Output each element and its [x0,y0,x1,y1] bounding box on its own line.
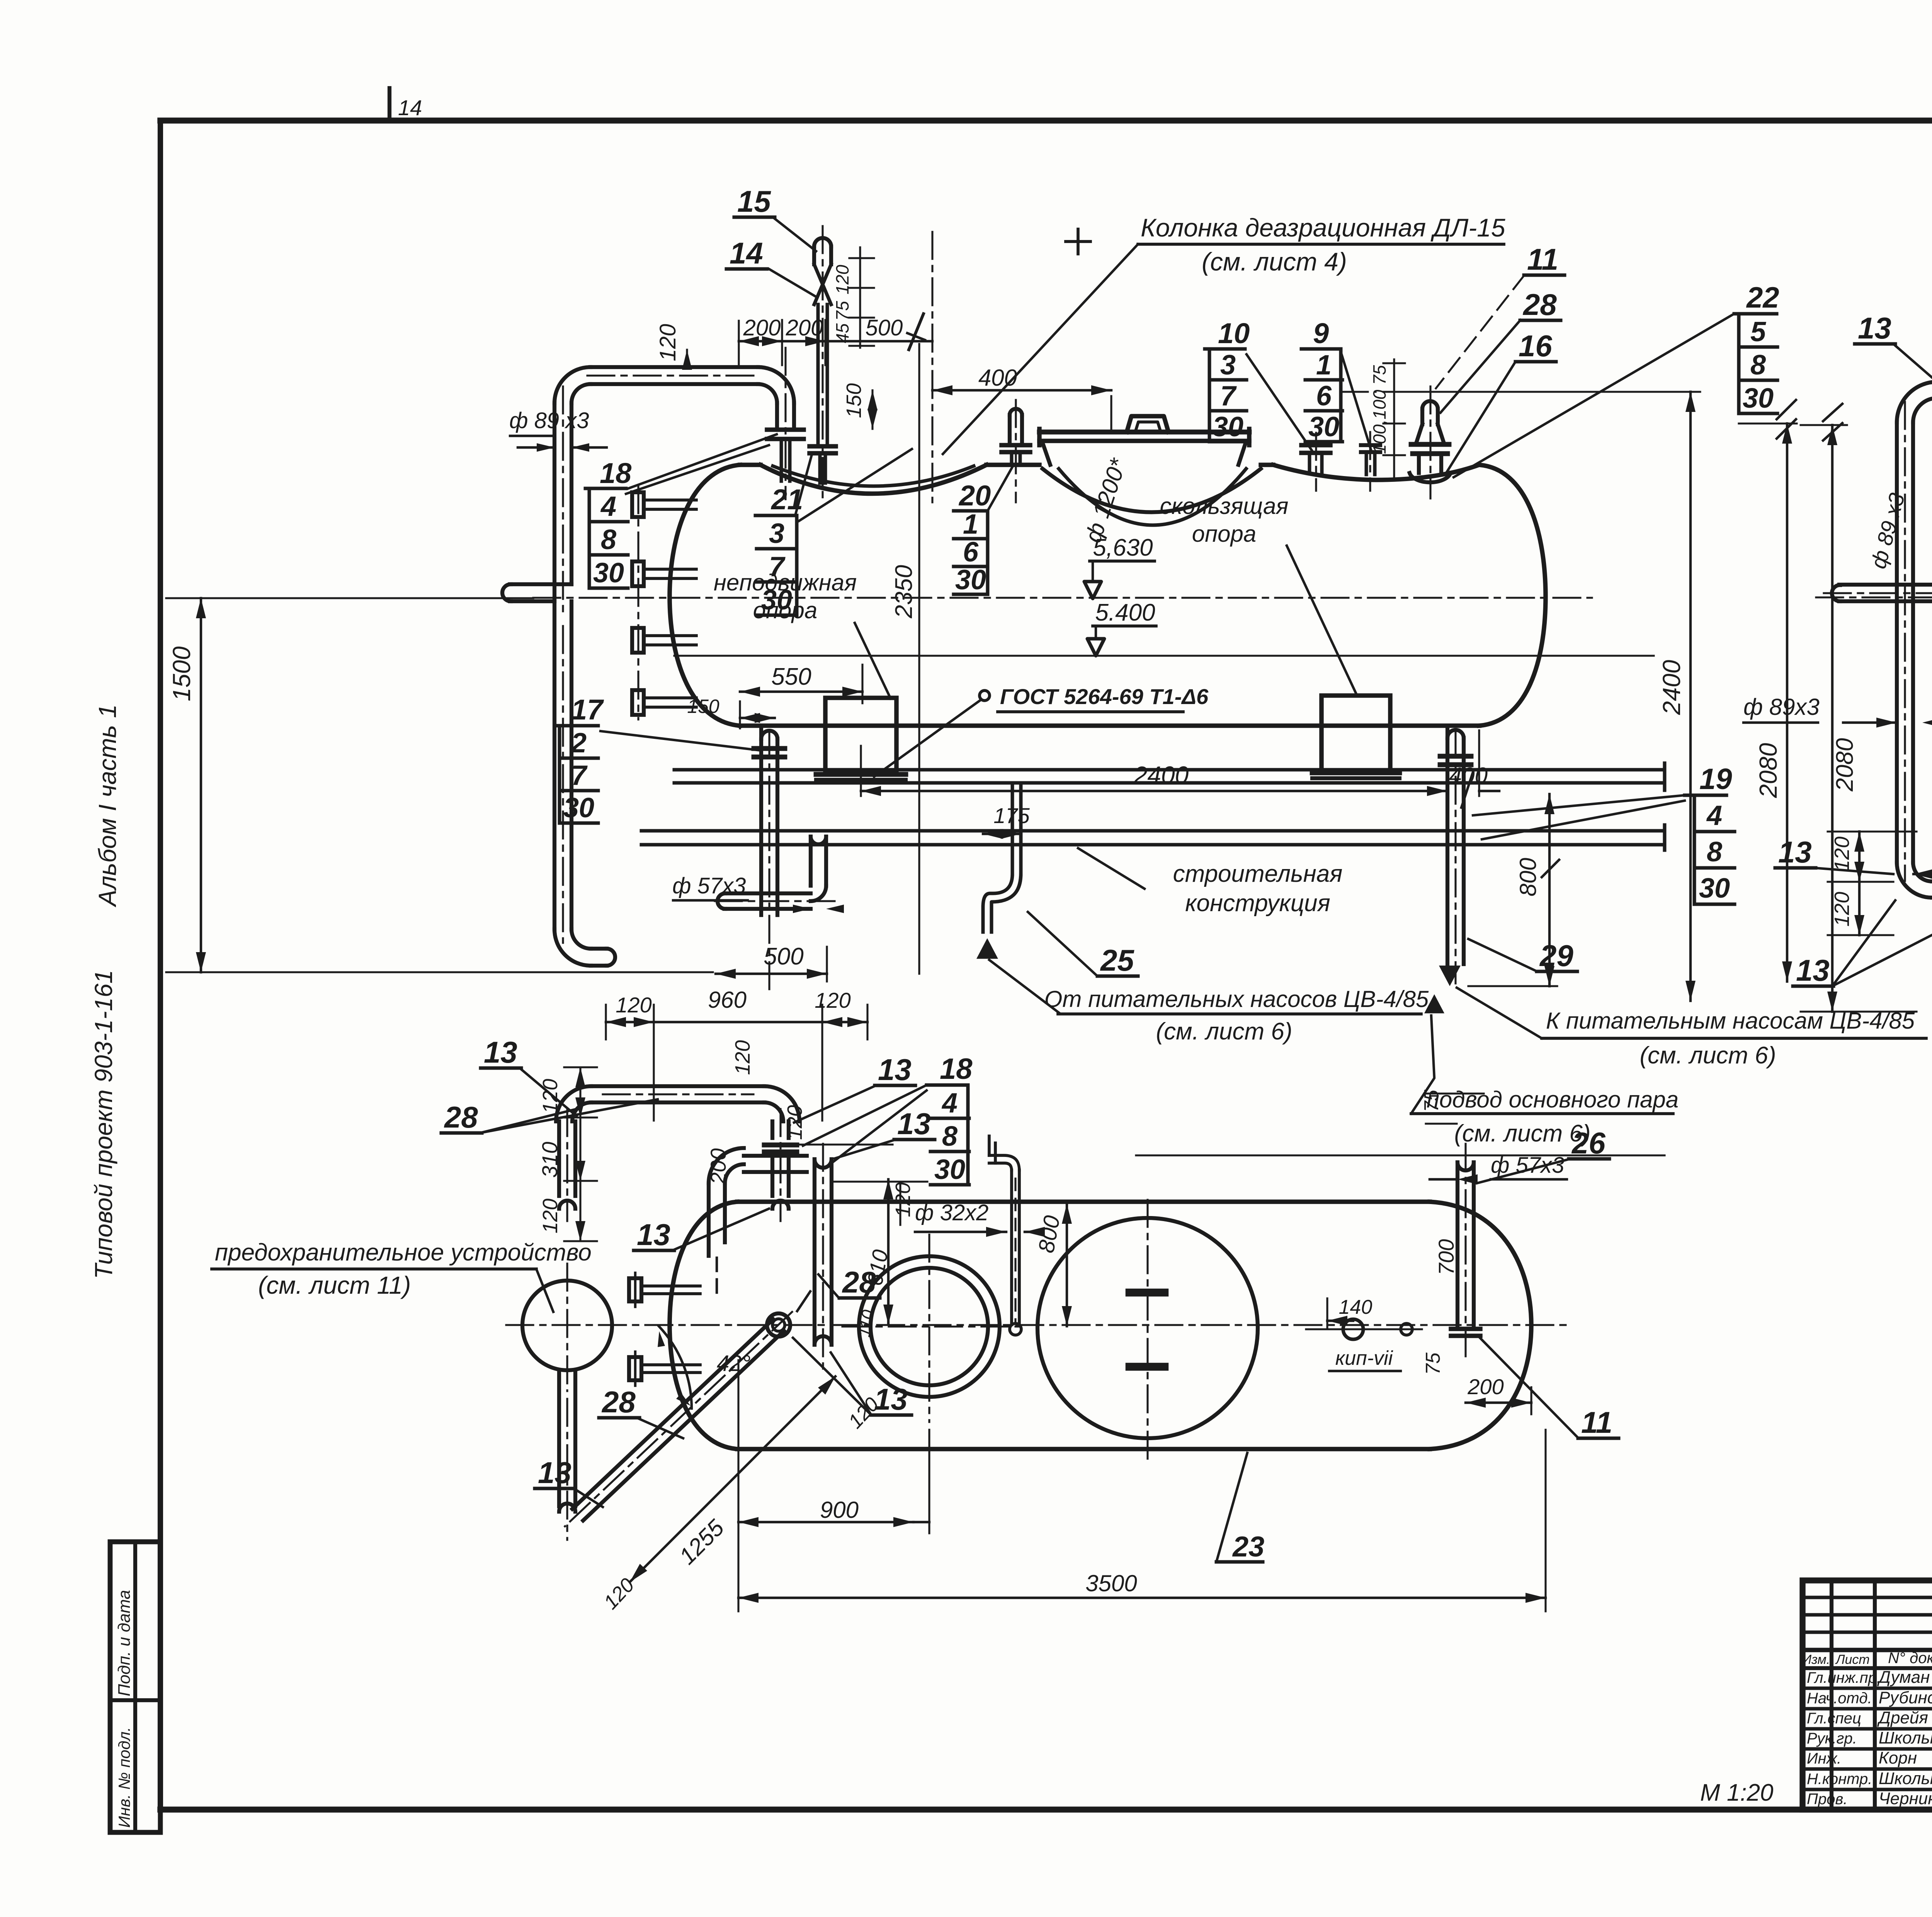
long vertical pipe item 28 [813,1159,816,1345]
svg-text:2350: 2350 [891,565,917,619]
svg-text:18: 18 [940,1053,973,1085]
svg-text:75: 75 [1422,1352,1444,1375]
svg-text:13: 13 [538,1456,571,1490]
svg-text:Колонка деазрационная ДЛ-15: Колонка деазрационная ДЛ-15 [1141,213,1505,242]
svg-text:14: 14 [730,236,763,270]
svg-text:8: 8 [1707,837,1722,867]
svg-text:500: 500 [866,315,903,340]
drain elbow assembly f57x3 [809,837,813,886]
svg-text:8: 8 [601,524,616,555]
svg-text:ф 89x3: ф 89x3 [1743,694,1820,720]
svg-text:120: 120 [616,993,651,1017]
svg-text:Рубинс: Рубинс [1879,1688,1932,1707]
svg-text:120: 120 [1830,892,1854,927]
svg-text:6: 6 [963,537,979,568]
svg-text:30: 30 [1308,412,1339,442]
svg-text:120: 120 [815,988,850,1012]
svg-text:Школьников: Школьников [1879,1769,1932,1788]
title block columns left part [1830,1580,1833,1810]
svg-text:подвод основного пара: подвод основного пара [1427,1087,1679,1112]
svg-text:150: 150 [687,696,719,717]
svg-text:Подп. и дата: Подп. и дата [115,1590,134,1696]
svg-text:7: 7 [1220,381,1237,412]
svg-text:30: 30 [934,1154,965,1185]
svg-text:22: 22 [1746,281,1779,314]
cover handle [1127,416,1168,432]
svg-text:28: 28 [444,1100,478,1134]
svg-text:(см. лист 4): (см. лист 4) [1202,247,1347,276]
svg-text:М 1:20: М 1:20 [1700,1779,1774,1806]
L-pipe with elbow [725,1164,744,1183]
svg-text:Школьников: Школьников [1879,1728,1932,1747]
svg-text:1500: 1500 [168,646,196,701]
svg-text:400: 400 [978,365,1017,391]
svg-text:строительная: строительная [1173,861,1343,887]
svg-text:От питательных насосов ЦВ-4/: От питательных насосов ЦВ-4/85 [1044,986,1429,1012]
svg-text:10: 10 [1218,317,1250,349]
svg-text:11: 11 [1527,242,1558,276]
dim 150 at left head [740,717,775,719]
svg-text:6: 6 [1316,381,1332,412]
svg-text:13: 13 [897,1107,931,1141]
svg-text:200: 200 [706,1148,730,1185]
svg-text:Инж.: Инж. [1807,1750,1841,1767]
svg-text:Дрейя: Дрейя [1877,1708,1928,1727]
svg-text:ф 89 x3: ф 89 x3 [509,408,589,433]
svg-text:4: 4 [600,491,616,522]
svg-text:2400: 2400 [1133,761,1189,789]
svg-text:13: 13 [637,1218,670,1252]
svg-text:25: 25 [1100,943,1134,977]
svg-text:Думан: Думан [1877,1668,1930,1687]
bottom nozzle right item 29 pipe [1447,730,1464,738]
nozzle 20 stub [1010,409,1022,415]
left horizontal stub pipe [1839,583,1932,587]
svg-text:16: 16 [1519,329,1552,363]
top nozzle item 10 group [1308,453,1311,474]
svg-text:11: 11 [1581,1405,1612,1439]
datum cross [1066,240,1090,243]
svg-text:15: 15 [737,184,771,218]
saddle double arc left (deaerator column seat) [760,465,986,494]
U-pipe item 13 [591,1084,764,1088]
tank plan view shell [670,1202,737,1449]
svg-text:1: 1 [1316,350,1332,381]
svg-text:550: 550 [771,663,811,690]
svg-text:2080: 2080 [1832,738,1858,792]
lower vertical pipe to diagonal [557,1371,561,1506]
svg-text:140: 140 [1339,1296,1372,1318]
column axis [931,232,933,502]
svg-text:5.400: 5.400 [1095,599,1155,626]
svg-text:ГОСТ 5264-69 Т1-Δ6: ГОСТ 5264-69 Т1-Δ6 [1000,684,1209,709]
svg-text:30: 30 [1699,873,1730,904]
svg-text:скользящая: скользящая [1160,493,1289,519]
svg-text:960: 960 [708,987,747,1013]
svg-text:2080: 2080 [1754,743,1782,798]
svg-text:Нач.отд.: Нач.отд. [1807,1690,1872,1707]
bottom elbow of riser B [1913,862,1932,881]
svg-text:предохранительное устройство: предохранительное устройство [215,1239,592,1266]
svg-text:30: 30 [1213,412,1243,442]
svg-text:17: 17 [571,694,604,726]
svg-text:5: 5 [1750,316,1766,347]
fold mark 14 left [388,88,391,121]
dim 1255 along diagonal [630,1376,835,1582]
svg-text:ф 32x2: ф 32x2 [915,1200,988,1225]
svg-text:7: 7 [571,760,588,791]
svg-text:4: 4 [1706,800,1722,831]
svg-text:42°: 42° [717,1351,751,1376]
svg-text:8: 8 [1750,350,1766,381]
svg-text:Корн: Корн [1879,1749,1917,1767]
svg-text:28: 28 [842,1265,876,1299]
svg-text:19: 19 [1699,763,1732,796]
svg-text:120: 120 [731,1040,754,1075]
svg-text:20: 20 [958,480,991,512]
svg-text:120: 120 [655,324,680,361]
svg-text:конструкция: конструкция [1185,890,1330,917]
svg-text:175: 175 [993,803,1030,828]
svg-text:2: 2 [570,728,587,759]
svg-text:200: 200 [743,315,781,340]
vent assembly items 14/15 [814,238,831,247]
svg-text:150: 150 [842,383,866,418]
bottom nozzle left with flange [761,731,777,739]
riser lower part [553,601,556,929]
saddle arc right shallow [1273,465,1479,480]
flow triangle to feed pumps [1439,966,1461,986]
svg-text:30: 30 [1743,383,1774,414]
svg-text:1: 1 [963,509,978,540]
svg-text:13: 13 [1858,311,1891,345]
svg-text:Рук.гр.: Рук.гр. [1807,1730,1857,1747]
fixed support (nepodvizhnaya opora) [825,698,896,774]
title block top mini rows [1803,1596,1932,1599]
svg-text:неподвижная: неподвижная [714,570,857,595]
dim 500 [716,973,827,975]
svg-text:200: 200 [1467,1374,1503,1399]
svg-text:200: 200 [786,315,823,340]
svg-text:2400: 2400 [1658,660,1685,715]
svg-text:Альбом I часть 1: Альбом I часть 1 [94,704,121,908]
svg-text:3: 3 [1220,350,1236,381]
svg-text:ф 57x3: ф 57x3 [1491,1153,1564,1178]
svg-text:30: 30 [563,793,594,823]
tee stub left on riser [510,582,571,586]
svg-text:700: 700 [1434,1239,1458,1275]
svg-text:опора: опора [753,597,818,623]
svg-text:21: 21 [770,483,803,515]
manhole neck dished arcs [1043,469,1261,512]
GOST weld note [980,691,990,701]
svg-text:120: 120 [891,1182,915,1217]
bottom left elbow and cap [571,929,591,949]
flow triangle at From-line end [1424,994,1444,1013]
svg-text:(см. лист 6): (см. лист 6) [1639,1042,1776,1069]
dim 200 200 500 row [738,321,740,366]
svg-text:14: 14 [398,95,422,120]
water level line 5.400 [674,655,1654,657]
svg-text:Изм.: Изм. [1802,1652,1830,1667]
svg-text:(см. лист 11): (см. лист 11) [258,1271,411,1299]
riser pipe B left with elbows [1895,422,1899,862]
svg-text:100,100 75: 100,100 75 [1369,365,1389,454]
svg-text:500: 500 [764,943,803,970]
svg-text:Пров.: Пров. [1807,1791,1847,1808]
dim 550 [740,691,862,693]
svg-text:8: 8 [942,1121,957,1152]
manhole cover plate [1039,430,1249,435]
svg-text:13: 13 [1778,835,1812,869]
svg-text:Черникова: Черникова [1879,1789,1932,1808]
column flange double circle [859,1256,1000,1397]
svg-text:ф 57x3: ф 57x3 [672,873,746,898]
tank DA-15 front view shell [670,465,740,726]
tank axis centerline [533,597,1592,599]
dim 2400 horizontal [861,790,1447,792]
dim 400 [1110,396,1112,430]
manhole handles [1129,1289,1165,1297]
svg-text:120: 120 [539,1199,562,1233]
title block outer [1803,1580,1932,1810]
svg-text:45: 45 [832,323,852,343]
sheet border frame [160,117,1932,123]
svg-text:800: 800 [1515,858,1541,896]
S-pipe item 25 feed line [1011,784,1014,874]
manhole neck [1043,445,1050,465]
svg-text:Гл.спец: Гл.спец [1807,1710,1861,1727]
svg-text:120: 120 [1830,837,1854,871]
svg-text:30: 30 [955,565,986,595]
diagonal pipe 42deg [565,1291,810,1526]
svg-text:Гл.инж.пр.: Гл.инж.пр. [1807,1669,1881,1686]
svg-text:13: 13 [1796,953,1830,987]
svg-text:Инв. № подл.: Инв. № подл. [115,1727,133,1828]
svg-text:опора: опора [1192,521,1257,547]
svg-text:13: 13 [878,1053,912,1087]
bolts on head [629,1278,641,1301]
svg-text:23: 23 [1232,1531,1264,1563]
svg-text:Н.контр.: Н.контр. [1807,1771,1872,1788]
right stub pipe Ø57 plan [1456,1162,1459,1326]
elbow ring of diagonal pipe [767,1313,790,1337]
long ext line [1136,1154,1665,1156]
safety device circle [522,1281,612,1370]
svg-text:3: 3 [769,518,784,549]
svg-text:18: 18 [600,457,632,489]
svg-text:120: 120 [539,1079,562,1114]
svg-text:120: 120 [832,265,852,294]
left margin stamp box [110,1542,160,1832]
svg-text:N° докум.: N° докум. [1888,1650,1932,1667]
top nozzle item 9 group [1365,452,1368,475]
svg-text:(см. лист 6): (см. лист 6) [1156,1018,1292,1045]
safety valve item 11/28/16 [1422,401,1438,409]
svg-text:Лист: Лист [1835,1652,1870,1667]
svg-text:28: 28 [601,1385,636,1419]
name rows [1803,1687,1932,1690]
svg-text:29: 29 [1539,939,1573,973]
construction beams [674,768,1665,772]
svg-text:900: 900 [820,1497,859,1523]
left head nozzles with studs [637,486,639,720]
sliding support (skolzyashchaya opora) [1321,696,1390,772]
svg-text:28: 28 [1522,287,1557,321]
svg-text:(см. лист 6): (см. лист 6) [1454,1120,1590,1147]
manhole circle plan [1037,1218,1258,1438]
svg-text:кип-vii: кип-vii [1335,1347,1393,1369]
flow triangle from feed pumps [976,938,998,959]
left top pipe with elbows (item 21 line) [590,365,758,369]
svg-text:4: 4 [941,1088,957,1119]
svg-text:30: 30 [593,558,624,589]
svg-text:Типовой проект 903-1-161: Типовой проект 903-1-161 [90,970,117,1279]
KIP instrument circle [1343,1319,1363,1339]
svg-text:9: 9 [1313,317,1329,349]
Ø32 thin pipe [1010,1170,1013,1325]
svg-text:3500: 3500 [1085,1570,1137,1596]
svg-text:310: 310 [537,1142,562,1178]
svg-text:13: 13 [484,1035,517,1069]
